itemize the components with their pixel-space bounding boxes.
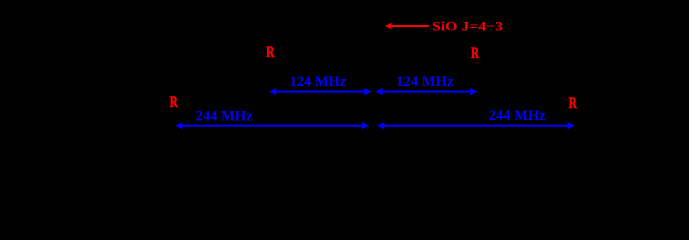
blue double arrow 244 right — [377, 122, 575, 129]
svg-text:SiO J=4−3: SiO J=4−3 — [432, 19, 504, 34]
blue double arrow 124 right — [376, 88, 478, 95]
blue double arrow 124 left — [269, 88, 371, 95]
svg-text:244 MHz: 244 MHz — [489, 108, 546, 124]
svg-text:244 MHz: 244 MHz — [196, 109, 253, 125]
svg-text:R: R — [569, 95, 578, 112]
svg-text:124 MHz: 124 MHz — [290, 74, 347, 90]
svg-text:R: R — [170, 94, 179, 111]
red label arrow pointing to SiO line — [385, 23, 429, 30]
svg-text:R: R — [266, 44, 275, 61]
svg-text:124 MHz: 124 MHz — [396, 74, 454, 90]
svg-text:R: R — [471, 45, 480, 62]
blue double arrow 244 left — [175, 122, 369, 129]
